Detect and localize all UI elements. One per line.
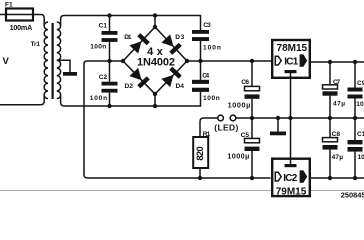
svg-text:V: V: [3, 56, 10, 67]
svg-text:100n: 100n: [203, 95, 220, 102]
separator line: [0, 190, 364, 192]
transformer core: [51, 23, 53, 99]
svg-text:C6: C6: [241, 79, 249, 86]
wire plus raw rail to IC1: [187, 60, 271, 62]
diode D3: [161, 34, 182, 55]
svg-text:Tr1: Tr1: [31, 41, 41, 48]
wire IC1 ground to IC2 ground: [290, 72, 292, 165]
capacitor C4: [192, 61, 209, 92]
diode D1: [129, 33, 150, 54]
capacitor C8: [323, 118, 338, 178]
diode D4: [161, 67, 182, 88]
diode D2: [129, 68, 150, 89]
capacitor C1: [102, 16, 118, 62]
svg-text:820: 820: [195, 146, 205, 160]
wire top rail (secondary top to C3 top): [61, 16, 201, 31]
capacitor C10: [348, 118, 363, 178]
wire secondary bottom AC rail: [61, 92, 201, 106]
svg-text:IC2: IC2: [283, 173, 297, 184]
svg-text:79M15: 79M15: [276, 186, 307, 197]
svg-text:C7: C7: [333, 79, 341, 86]
svg-text:C3: C3: [203, 22, 211, 29]
svg-text:C2: C2: [99, 74, 108, 81]
svg-text:C1: C1: [99, 22, 108, 29]
svg-text:47µ: 47µ: [333, 101, 345, 108]
svg-text:C10: C10: [357, 131, 364, 138]
transformer Tr1 primary winding: [44, 22, 48, 99]
transformer Tr1 secondary winding: [57, 22, 61, 99]
capacitor C9: [348, 62, 363, 118]
wire mains top: [0, 14, 6, 16]
svg-text:47µ: 47µ: [332, 154, 344, 161]
wire bridge bottom stub: [154, 94, 156, 106]
svg-text:R1: R1: [203, 131, 211, 138]
wire bridge top stub: [154, 16, 156, 28]
svg-text:C5: C5: [241, 132, 250, 139]
capacitor C2: [102, 61, 118, 106]
capacitor C6: [245, 61, 260, 118]
fuse F1: [6, 9, 33, 21]
LED terminal circle left: [218, 115, 224, 121]
ground bar 0V: [270, 118, 286, 135]
svg-text:100n: 100n: [90, 95, 107, 102]
svg-text:IC1: IC1: [284, 56, 298, 67]
LED terminal circle right: [230, 115, 236, 121]
svg-text:D2: D2: [125, 83, 134, 90]
svg-text:100n: 100n: [90, 44, 106, 51]
resistor R1: [193, 118, 218, 178]
ground bar center tap: [63, 72, 77, 76]
capacitor C3: [192, 30, 209, 61]
svg-text:100n: 100n: [356, 101, 364, 108]
voltage regulator IC1 78M15: [272, 40, 310, 78]
capacitor C5: [245, 118, 260, 178]
svg-text:1000µ: 1000µ: [228, 100, 251, 109]
svg-text:250845 - 11: 250845 - 11: [341, 190, 364, 199]
svg-text:78M15: 78M15: [277, 43, 308, 54]
bridge rectifier diamond wires: [123, 27, 187, 94]
svg-text:F1: F1: [5, 2, 13, 9]
svg-text:D3: D3: [175, 34, 184, 41]
wire center tap: [57, 60, 70, 72]
svg-text:D1: D1: [124, 34, 132, 41]
wire -15V output rail: [310, 177, 364, 179]
voltage regulator IC2 79M15: [272, 159, 310, 196]
wire +15V output rail: [310, 61, 364, 63]
svg-text:C4: C4: [202, 72, 209, 79]
svg-text:1N4002: 1N4002: [137, 57, 175, 69]
wire fuse to transformer primary: [33, 15, 44, 27]
wire left bus minus raw to bottom rail: [84, 61, 271, 178]
svg-text:100mA: 100mA: [10, 23, 33, 32]
svg-text:D4: D4: [176, 83, 185, 90]
svg-text:1000µ: 1000µ: [227, 152, 249, 161]
svg-text:100n: 100n: [203, 44, 221, 51]
svg-text:(LED): (LED): [214, 122, 238, 132]
wire mains bottom: [0, 95, 44, 105]
svg-text:C9: C9: [357, 80, 364, 87]
svg-text:100n: 100n: [358, 154, 364, 161]
wire 0V rail: [236, 117, 364, 119]
capacitor C7: [323, 62, 338, 118]
svg-text:C8: C8: [332, 131, 341, 138]
